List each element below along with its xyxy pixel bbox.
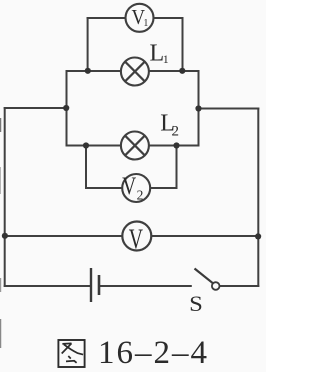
- svg-text:V: V: [129, 224, 143, 256]
- junction node on L2 line left: [83, 142, 89, 148]
- lamp L1 body: [121, 58, 149, 86]
- wire L2 branch horizontal: [67, 145, 199, 147]
- switch S pivot circle: [212, 282, 220, 290]
- junction node on L1 line left: [85, 68, 91, 74]
- junction node on L2 line right: [173, 142, 179, 148]
- wire left branch to outer rail: [5, 107, 67, 109]
- junction node on L1 line right: [179, 68, 185, 74]
- battery short plate (negative): [98, 275, 101, 295]
- wire right branch to outer rail: [199, 108, 259, 110]
- junction node on V line right: [255, 233, 261, 239]
- wire V1 loop left vertical: [87, 18, 89, 71]
- wire left vertical L1-to-L2: [66, 71, 68, 146]
- svg-text:1: 1: [163, 52, 169, 66]
- wire bottom left to battery: [5, 285, 91, 287]
- lamp L1 cross: [125, 62, 145, 82]
- svg-text:2: 2: [172, 124, 180, 140]
- voltmeter V body: [122, 222, 151, 251]
- junction node right rail branch: [195, 105, 201, 111]
- wire V1 loop right vertical: [182, 18, 184, 71]
- svg-text:16–2–4: 16–2–4: [98, 335, 209, 371]
- wire L1 branch horizontal: [67, 70, 199, 72]
- scan artifact streaks on left edge: [0, 118, 2, 348]
- lamp L2 body: [121, 132, 149, 160]
- wire right vertical L1-to-L2: [198, 71, 200, 146]
- wire V2 loop left vertical: [85, 146, 87, 189]
- svg-text:S: S: [189, 292, 203, 316]
- svg-text:V: V: [122, 172, 136, 200]
- wire left outer rail: [4, 108, 6, 286]
- wire top loop horizontal (V1 branch): [88, 17, 183, 19]
- lamp L2 cross: [125, 136, 145, 156]
- switch S lever: [195, 269, 214, 284]
- battery long plate (positive): [90, 268, 92, 302]
- wire V2 loop right vertical: [176, 146, 178, 189]
- wire right outer rail: [257, 109, 259, 287]
- wire V2 loop horizontal: [86, 187, 177, 189]
- wire switch to right rail: [220, 285, 259, 287]
- voltmeter V1 body: [126, 4, 154, 32]
- svg-text:2: 2: [137, 187, 144, 202]
- voltmeter V2 body: [122, 174, 150, 202]
- wire voltmeter V horizontal: [5, 235, 259, 237]
- junction node left rail branch: [63, 105, 69, 111]
- svg-text:1: 1: [143, 18, 148, 29]
- junction node on V line left: [2, 233, 8, 239]
- wire battery to switch: [99, 285, 191, 287]
- caption glyph TU (Chinese 'figure') drawn as strokes: [58, 340, 84, 367]
